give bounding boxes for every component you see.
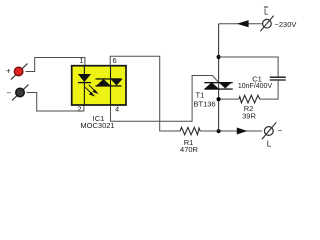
svg-text:1: 1 <box>79 56 83 65</box>
svg-text:39R: 39R <box>242 111 256 120</box>
capacitor C1 <box>270 77 286 80</box>
svg-text:2: 2 <box>77 105 81 114</box>
wire top rail to C1 <box>219 57 279 77</box>
LED cathode bar <box>78 82 91 84</box>
triac T1 main vertical <box>218 24 220 131</box>
wire IC1 pin 6 down to bottom rail / R1 <box>110 56 180 131</box>
svg-text:BT136: BT136 <box>194 99 216 108</box>
arrow to load (bottom, pointing right) <box>237 128 248 135</box>
svg-text:C1: C1 <box>252 74 262 83</box>
junction node: top rail / T1 MT2 / mains L <box>217 55 221 59</box>
load terminal L (bottom) <box>262 122 283 148</box>
svg-text:4: 4 <box>115 105 119 114</box>
wire C1 to R2 <box>260 80 278 99</box>
wire R2 to triac <box>219 98 239 100</box>
LED vertical line inside opto <box>83 66 85 105</box>
svg-text:L: L <box>264 8 269 17</box>
wire - input terminal to IC1 pin 2 <box>27 93 84 112</box>
svg-text:10nF/400V: 10nF/400V <box>238 83 273 90</box>
svg-text:~: ~ <box>278 127 283 136</box>
svg-text:6: 6 <box>113 56 117 65</box>
optocoupler IC1 MOC3021 body <box>72 66 126 105</box>
svg-text:~230V: ~230V <box>275 20 297 29</box>
svg-text:−: − <box>7 89 12 98</box>
wire IC1 pin 4 to gate of T1 <box>111 76 219 122</box>
svg-text:MOC3021: MOC3021 <box>80 121 114 130</box>
svg-text:+: + <box>6 67 11 76</box>
opto-triac vertical line <box>110 66 112 105</box>
LED diode triangle (inside IC1) <box>78 74 91 82</box>
wire + input terminal to IC1 pin 1 <box>26 58 85 72</box>
resistor R1 <box>180 127 200 134</box>
svg-text:L: L <box>267 140 272 149</box>
mains terminal L ~230V (top) <box>260 7 273 31</box>
wire top node to mains terminal <box>219 23 263 25</box>
junction node: snubber R2 / T1 MT1 <box>217 97 221 101</box>
wire R1 to lamp <box>200 130 262 132</box>
LED light arrows <box>85 85 97 96</box>
terminal - (black) <box>7 85 29 101</box>
svg-text:470R: 470R <box>180 145 199 154</box>
opto-triac symbol <box>96 78 123 86</box>
triac T1 symbol <box>204 82 232 90</box>
arrow (top, pointing left) <box>237 20 249 27</box>
resistor R2 <box>239 95 260 103</box>
svg-text:T1: T1 <box>196 90 205 99</box>
junction node: bottom rail / T1 MT1 <box>217 129 221 133</box>
terminal + (red) <box>6 64 28 80</box>
